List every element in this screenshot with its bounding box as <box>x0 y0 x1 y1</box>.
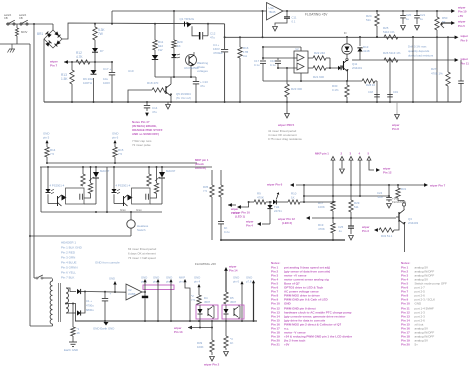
svg-text:72 msec pulse: 72 msec pulse <box>132 143 151 147</box>
svg-text:7.5: 7.5 <box>191 298 195 302</box>
diode D13 4148 <box>352 37 370 60</box>
optocoupler box 2 <box>222 305 244 319</box>
wire U2 input y58 <box>262 57 297 59</box>
resistor R11 622 <box>153 24 164 52</box>
svg-text:R27: R27 <box>431 67 437 71</box>
wire node y77 <box>155 76 196 78</box>
svg-text:PWM MOS pin 2 direct & Collect: PWM MOS pin 2 direct & Collector of Q7 <box>284 323 342 327</box>
wire x377 to bus <box>376 81 378 103</box>
note gray near header <box>128 247 157 260</box>
wire sense y60 <box>360 57 469 66</box>
svg-text:R22 240: R22 240 <box>314 51 325 55</box>
wire rectified node y291.5 <box>84 291 126 293</box>
svg-text:Pin 12: Pin 12 <box>383 171 392 175</box>
svg-text:6800u: 6800u <box>86 308 94 312</box>
svg-text:voltages: voltages <box>197 69 208 73</box>
capacitor C3 dark bar <box>142 296 148 321</box>
net label wiper Pin 2 <box>203 363 220 366</box>
header pin arrow 1 <box>331 157 335 202</box>
svg-text:Pin 20: Pin 20 <box>401 343 410 347</box>
svg-text:4507: 4507 <box>204 300 211 304</box>
svg-text:7.5: 7.5 <box>118 152 122 156</box>
diode D5 <box>152 55 158 59</box>
wire U2 input y68 <box>277 67 297 69</box>
svg-text:Pin 13: Pin 13 <box>174 330 183 334</box>
resistor R26 511F 1% <box>383 51 401 62</box>
svg-text:Q1 TIP42G: Q1 TIP42G <box>180 17 195 21</box>
svg-text:0.2u: 0.2u <box>224 230 230 234</box>
svg-text:4700u: 4700u <box>86 304 94 308</box>
svg-text:Pin 6 YELL: Pin 6 YELL <box>61 271 76 275</box>
svg-text:D7: D7 <box>100 49 104 53</box>
svg-text:+5V: +5V <box>284 343 289 347</box>
svg-text:1u: 1u <box>406 17 410 21</box>
resistor R21b 600 <box>308 58 338 79</box>
fuse F1 (switch symbol) <box>4 13 15 25</box>
svg-text:AND so SUNN OFF): AND so SUNN OFF) <box>132 132 159 136</box>
svg-text:R21 600: R21 600 <box>313 75 324 79</box>
svg-text:due to load resistors: due to load resistors <box>408 54 434 58</box>
svg-text:MAC97: MAC97 <box>166 169 176 173</box>
resistor R28 on y81 <box>362 79 377 87</box>
svg-text:73 msec = half speed: 73 msec = half speed <box>128 256 156 260</box>
svg-text:.1u: .1u <box>338 229 342 233</box>
chassis ground on neutral <box>8 44 16 53</box>
wire y240 bus <box>221 239 345 241</box>
svg-text:0.1: 0.1 <box>292 20 296 24</box>
diode D15 with flag <box>266 192 288 204</box>
wire x413 vertical <box>412 36 414 103</box>
svg-text:wiper: wiper <box>460 34 469 38</box>
svg-text:1u: 1u <box>420 17 424 21</box>
svg-text:2N4401: 2N4401 <box>352 66 363 70</box>
svg-text:pin 6: pin 6 <box>233 280 240 284</box>
svg-text:1W: 1W <box>158 48 163 52</box>
capacitor C21 with ground arrow <box>414 11 425 30</box>
svg-text:R31: R31 <box>401 187 407 191</box>
svg-text:24741: 24741 <box>274 209 282 213</box>
label FLOATING +5V bottom <box>195 262 216 266</box>
optotriac channel 2 (U5 PS2501 / triac Q9) <box>107 167 176 212</box>
svg-text:wiper PIN 5: wiper PIN 5 <box>277 123 295 127</box>
connector labels row 1 <box>141 276 187 284</box>
wire bottom bus y321 <box>75 320 257 322</box>
svg-text:pin 5: pin 5 <box>43 136 50 140</box>
transistor Q5 2N3904 <box>166 77 191 103</box>
svg-text:U2: U2 <box>128 288 132 292</box>
svg-text:GND Earth GND: GND Earth GND <box>93 327 114 331</box>
wire center tap to bus <box>73 304 76 322</box>
capacitor C19 above bus <box>387 90 398 97</box>
op-amp U2 (dual, boxed) <box>262 46 308 82</box>
svg-text:100K: 100K <box>318 205 325 209</box>
svg-text:pin 6: pin 6 <box>112 136 119 140</box>
svg-text:511: 511 <box>366 18 371 22</box>
wire x390 vertical <box>389 59 391 103</box>
net arrow right end y185 <box>424 183 446 187</box>
svg-text:63 msec filmed period: 63 msec filmed period <box>128 247 157 251</box>
header pin arrow 3 <box>349 157 353 187</box>
wire opto2 down <box>225 319 227 321</box>
resistor R20 1K <box>172 11 183 48</box>
capacitor C24 .02u <box>377 184 392 208</box>
label MKP pin 1 note <box>195 158 209 170</box>
transformer T1 secondary <box>66 288 76 313</box>
resistor R19 470K <box>318 223 335 240</box>
svg-text:Pin 11: Pin 11 <box>461 62 470 66</box>
svg-text:4 PS2501-4: 4 PS2501-4 <box>116 184 131 188</box>
op-amp U1 78L05 <box>267 3 284 21</box>
resistor R38 <box>224 292 237 304</box>
wire vertical x30 (neutral down to transformer) <box>29 44 31 326</box>
svg-text:R23 300: R23 300 <box>291 87 302 91</box>
net arrow wiper Pin 13 <box>173 319 212 334</box>
svg-text:7W: 7W <box>98 32 103 36</box>
note brake gray <box>132 139 152 147</box>
junction dot x30/y236 <box>29 235 31 237</box>
svg-text:FLOATING +5V: FLOATING +5V <box>305 13 328 17</box>
label MKP pins <box>315 152 370 156</box>
capacitor C11 0.1 <box>275 11 297 26</box>
resistor R13 1.5K <box>61 62 74 103</box>
resistor R25 511F 1% on rail y37 <box>383 26 398 39</box>
net stub arrow x115 <box>109 277 117 294</box>
diode D2 <box>77 292 85 316</box>
optocoupler box 1 <box>196 305 218 319</box>
wire bus y163 <box>46 162 197 164</box>
svg-text:470K: 470K <box>257 196 264 200</box>
svg-text:.02u: .02u <box>377 195 383 199</box>
svg-text:0.1%: 0.1% <box>332 88 339 92</box>
svg-text:R28 10: R28 10 <box>366 83 375 87</box>
resistor R39 100K <box>197 321 214 361</box>
svg-text:pin 4: pin 4 <box>194 280 201 284</box>
resistor R40 1K <box>224 321 234 356</box>
svg-text:Pin 14: Pin 14 <box>229 269 238 273</box>
net arrow Anode Pin 7 <box>49 60 68 68</box>
svg-text:78L05: 78L05 <box>269 11 277 14</box>
label GND pin 6 <box>233 276 244 322</box>
svg-text:GND: GND <box>284 302 292 306</box>
svg-text:(To Vcc ref): (To Vcc ref) <box>176 96 191 100</box>
svg-text:GND: GND <box>109 277 115 281</box>
net arrow + resistor R32 51.1 <box>361 222 399 238</box>
svg-text:1K: 1K <box>291 196 295 200</box>
heatless switch <box>120 209 149 236</box>
transistor Q1 TIP42G <box>180 17 199 36</box>
net arrow wiper Pin 9 <box>455 34 469 43</box>
wire y212 to heatless switch <box>41 211 162 213</box>
svg-text:0.75 msec drag resistance: 0.75 msec drag resistance <box>268 137 302 141</box>
junction DC+ rail x112 <box>111 23 113 25</box>
svg-text:GND: GND <box>415 302 423 306</box>
wire vertical x34 (line down to transformer) <box>33 24 35 278</box>
note text below arrow <box>268 129 302 141</box>
svg-text:Pin 4 BLUE: Pin 4 BLUE <box>61 261 77 265</box>
resistor R37 <box>191 294 211 305</box>
resistor R34 1K <box>288 185 334 204</box>
diode D1 <box>77 289 85 294</box>
svg-text:0.1u: 0.1u <box>270 63 276 67</box>
junction rail y11 x174 <box>173 10 175 12</box>
ground arrow below bus x168 <box>166 102 171 109</box>
svg-text:FLOATING +5V: FLOATING +5V <box>195 262 216 266</box>
earth ground for R1 <box>64 342 78 352</box>
wire D7 to node y62 <box>94 52 96 63</box>
svg-text:4.7K: 4.7K <box>76 55 83 59</box>
resistor R14 7.5 <box>45 140 56 163</box>
wire bottom rail y81 <box>263 80 362 82</box>
resistor R21 5.3K 7W <box>93 23 106 40</box>
resistor chain R17 100K <box>318 201 335 223</box>
capacitor C4 160V 4700uF <box>213 24 228 103</box>
svg-text:MAC97: MAC97 <box>100 169 110 173</box>
resistor R29 51 <box>349 185 360 218</box>
header pin arrow 4 <box>358 157 362 198</box>
svg-text:LM358: LM358 <box>128 293 136 296</box>
transformer T1 core <box>59 283 61 322</box>
svg-text:CA: CA <box>243 54 247 58</box>
svg-text:Pin 5 GRNN: Pin 5 GRNN <box>61 266 78 270</box>
notes column right (Pin 1-20) <box>401 261 447 346</box>
wire y196 row <box>303 195 390 197</box>
svg-text:1.5K: 1.5K <box>61 77 68 81</box>
wire bus y167 <box>40 166 212 168</box>
wire y217 row <box>312 217 396 219</box>
wire R21 to D7 <box>94 40 96 48</box>
LED of opto U6 <box>171 48 180 77</box>
net arrow wiper Pin 12 LED2 <box>277 216 310 225</box>
net arrow wiper Pin 10 <box>232 202 250 219</box>
svg-text:5+: 5+ <box>415 343 419 347</box>
svg-text:C17 +: C17 + <box>103 67 111 71</box>
capacitor C14 47u below bus <box>144 101 158 117</box>
wire ground bus y102 <box>44 101 461 103</box>
svg-text:Pin 7: Pin 7 <box>50 64 58 68</box>
svg-text:7.5: 7.5 <box>50 152 54 156</box>
net arrow wiper Pin 4 <box>245 220 270 228</box>
svg-text:R32 51.1: R32 51.1 <box>381 234 393 238</box>
svg-text:Pin 1 BLK GND: Pin 1 BLK GND <box>61 246 83 250</box>
net arrow wiper Pin 10 <box>443 6 467 19</box>
svg-text:Pin 10: Pin 10 <box>401 302 410 306</box>
ground arrow U1 <box>273 27 278 32</box>
note washing phase voltages <box>197 61 209 73</box>
svg-text:wiper: wiper <box>457 20 466 24</box>
resistor R15 7.5 <box>113 140 124 163</box>
svg-text:MKP pin 1: MKP pin 1 <box>315 152 329 156</box>
capacitor C25 <box>338 218 354 240</box>
svg-text:MOV: MOV <box>21 30 28 34</box>
label +5V FLOATING <box>392 197 407 205</box>
capacitor C22 / resistor 470K <box>446 37 450 102</box>
capacitor C13 47u <box>193 77 208 103</box>
resistor R35 7.5 <box>203 170 214 240</box>
svg-text:+: + <box>110 292 112 296</box>
resistor R22 240 <box>308 51 330 60</box>
wire U1 output rail y11 <box>283 10 443 12</box>
net arrow wiper Pin 12 (pin5 stub) <box>376 167 392 175</box>
wire MKP pin1 down <box>185 282 190 322</box>
svg-text:p7,8: p7,8 <box>246 280 252 284</box>
notes column left (Pin 1-21) <box>271 261 353 346</box>
svg-text:Pin 9: Pin 9 <box>461 39 468 43</box>
optocoupler U6 PS2501 <box>184 52 199 77</box>
thermal fuse at primary <box>34 275 52 279</box>
header pin arrow 2 <box>340 157 345 174</box>
svg-text:IN: IN <box>344 32 347 35</box>
svg-text:C1 +: C1 + <box>86 299 92 303</box>
magenta net box <box>143 285 174 290</box>
capacitor C1 <box>102 292 112 323</box>
svg-text:1K: 1K <box>177 44 181 48</box>
svg-text:47u: 47u <box>152 110 157 114</box>
svg-text:7.5: 7.5 <box>203 189 207 193</box>
wire AC neutral y44 <box>0 43 30 45</box>
resistor R23 300 <box>285 67 303 103</box>
svg-text:Pin 3 ORN: Pin 3 ORN <box>61 256 75 260</box>
wire bridge left tip down to ground bus <box>43 39 45 102</box>
svg-text:C18: C18 <box>368 90 373 94</box>
svg-text:6 days OK at element: 6 days OK at element <box>128 252 156 256</box>
svg-text:Pin 11: Pin 11 <box>231 211 240 215</box>
resistor R12 4.7K <box>76 51 90 64</box>
svg-text:PWM GND pin 9 & Cath of LED: PWM GND pin 9 & Cath of LED <box>284 298 328 302</box>
svg-text:100K: 100K <box>197 345 204 349</box>
svg-text:Pin 7 BLK: Pin 7 BLK <box>61 276 74 280</box>
op-amp U2A <box>126 284 142 300</box>
resistor R18 470 <box>127 81 166 103</box>
capacitor C17 10u 100V <box>103 62 115 103</box>
resistor R31 at x398 <box>396 184 407 203</box>
wire amp output to box pin <box>142 282 146 297</box>
label GND pin 4 <box>194 276 201 296</box>
net arrow wiper Pin 8 <box>391 102 400 131</box>
svg-text:4507: 4507 <box>230 300 237 304</box>
note drift <box>408 45 434 58</box>
wire node y62 horizontal <box>64 61 113 63</box>
diode D16 vertical <box>267 202 282 224</box>
junction DC+ rail x155 <box>154 23 156 25</box>
wire bridge right tip to DC+ rail y23 <box>62 23 225 39</box>
bridge rectifier BR1 <box>37 30 62 48</box>
svg-text:R26 511F 1%: R26 511F 1% <box>383 51 401 55</box>
svg-text:(LED 2): (LED 2) <box>282 221 292 225</box>
svg-text:GND from console: GND from console <box>95 261 120 265</box>
capacitor C18 above bus <box>368 90 380 97</box>
wire rail y10 into U1 <box>112 10 267 24</box>
transformer T1 primary <box>30 279 53 327</box>
svg-text:Pin 2 RED: Pin 2 RED <box>61 251 76 255</box>
net arrow left end y185 <box>266 182 294 187</box>
svg-text:100TH: 100TH <box>83 81 92 85</box>
capacitor C12 47u <box>199 23 216 40</box>
potentiometer R50 5K <box>435 10 448 37</box>
svg-text:cond in): cond in) <box>195 166 206 170</box>
svg-text:470K 1%: 470K 1% <box>431 72 443 76</box>
label U10 <box>128 69 134 73</box>
resistor R1 to earth <box>71 304 80 343</box>
resistor R30 49.9 above bus <box>332 81 349 103</box>
wire rail y37 <box>225 36 455 38</box>
label GND pin 5 <box>43 132 50 140</box>
svg-text:(LED 1): (LED 1) <box>235 215 245 219</box>
transistor Q11 2N4401 <box>340 54 363 81</box>
header pin arrow 5 <box>367 157 374 171</box>
svg-text:C19: C19 <box>393 90 398 94</box>
resistor R33 470K <box>248 192 266 205</box>
label C1 4700u <box>86 299 94 312</box>
svg-text:+5V: +5V <box>458 14 463 18</box>
svg-text:1K: 1K <box>77 331 81 335</box>
svg-text:CB: CB <box>4 16 8 20</box>
svg-text:Pin 21: Pin 21 <box>271 343 280 347</box>
wire U1 feedback vertical x262.5 <box>262 11 264 38</box>
svg-text:CB: CB <box>19 16 23 20</box>
LED D12 (circle) <box>342 32 352 54</box>
svg-text:R18 470: R18 470 <box>147 81 159 85</box>
svg-text:47u: 47u <box>200 84 205 88</box>
resistor R16 17K <box>238 37 249 103</box>
svg-text:wiper Pin 7: wiper Pin 7 <box>429 184 446 188</box>
resistor R36 7.5 + cap <box>218 170 230 241</box>
svg-text:Switch: Switch <box>137 228 146 232</box>
svg-text:BR1: BR1 <box>37 32 43 36</box>
note brake magenta <box>132 120 163 136</box>
zener D6 <box>83 62 97 103</box>
svg-text:Pin 3: Pin 3 <box>362 229 369 233</box>
svg-text:Earth GND: Earth GND <box>64 348 78 352</box>
svg-text:HEADER 1: HEADER 1 <box>61 241 76 245</box>
svg-text:Pin 10: Pin 10 <box>458 10 467 14</box>
svg-text:quantity depends: quantity depends <box>408 49 430 53</box>
wire R11 to D5 <box>154 50 156 55</box>
capacitor C17b 0.1u <box>254 47 266 81</box>
svg-text:Drift 0.1% max: Drift 0.1% max <box>408 45 427 49</box>
label FLOATING +5V <box>305 13 328 17</box>
wire y236 <box>30 235 131 237</box>
svg-text:Pin 4: Pin 4 <box>246 224 253 228</box>
svg-text:470K: 470K <box>318 227 325 231</box>
svg-text:4148: 4148 <box>363 49 370 53</box>
svg-text:511: 511 <box>354 205 359 209</box>
wire D5 to y77 <box>154 60 156 77</box>
label GND pin 6 <box>112 132 119 140</box>
wire box pin x158 down <box>157 282 159 322</box>
svg-text:Pin 8: Pin 8 <box>392 127 399 131</box>
varistor MOV <box>15 24 27 44</box>
optotriac channel 1 (U4 PS2501 / triac Q8) <box>41 167 110 212</box>
capacitor C20 with ground arrow <box>400 11 411 30</box>
diode D14 into Q11 base <box>338 66 344 70</box>
resistor R27 470K 1% <box>431 37 443 102</box>
wire y185 row <box>296 184 425 186</box>
net arrow below bus x287 (wiper PIN 5) <box>277 102 295 127</box>
svg-text:4700uF: 4700uF <box>213 51 223 55</box>
svg-text:511F 1%: 511F 1% <box>383 30 395 34</box>
svg-text:47u: 47u <box>210 36 215 40</box>
svg-text:Pin 5: Pin 5 <box>458 24 465 28</box>
resistor R24 511 <box>366 11 379 38</box>
svg-text:2N4403: 2N4403 <box>408 221 419 225</box>
svg-text:wiper Pin 2: wiper Pin 2 <box>203 363 220 366</box>
svg-text:wiper Pin 6: wiper Pin 6 <box>266 182 283 186</box>
svg-text:1K: 1K <box>230 341 234 345</box>
diode D7 <box>92 48 104 53</box>
HEADER 1 pin list <box>61 241 120 280</box>
svg-text:U10: U10 <box>128 69 134 73</box>
wire AC line input rail y24 <box>6 23 53 25</box>
